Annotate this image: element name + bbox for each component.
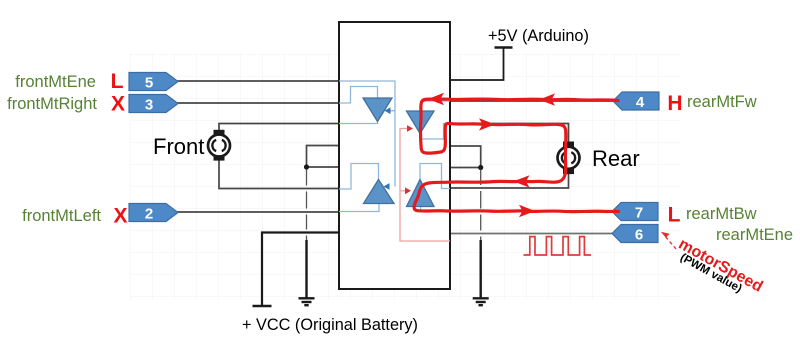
triangle A4 rear driver bottom (407, 180, 435, 207)
enable arrow into A4 (405, 187, 411, 194)
pin 5 (129, 73, 178, 91)
wire +5V to IC (450, 48, 504, 81)
wire output A2 to front motor bottom (blue) (339, 164, 379, 190)
svg-text:frontMtRight: frontMtRight (7, 95, 97, 113)
wire rear ground dropper (480, 170, 482, 241)
wire input pin7 (blue) (421, 207, 451, 212)
wire input pin3 (blue) (339, 87, 378, 104)
motor M1 Front (208, 130, 230, 161)
svg-text:+5V (Arduino): +5V (Arduino) (488, 27, 589, 45)
motorSpeed pointer arrow (dashed) (665, 236, 677, 250)
pin 6 (612, 225, 658, 243)
svg-text:4: 4 (636, 94, 645, 111)
wire front ground dropper (306, 170, 308, 241)
red current path annotation pin4 to pin7 (414, 99, 618, 212)
wire front motor bottom (219, 161, 339, 189)
wire enable left (blue) (339, 81, 395, 187)
wire input pin4 (blue) (421, 101, 450, 111)
wire pin7 net to IC (450, 211, 614, 213)
pin 3 (129, 95, 178, 113)
op-amp U1 driver IC body (339, 22, 450, 289)
svg-text:5: 5 (145, 75, 153, 92)
triangle A3 rear driver top (407, 111, 435, 134)
svg-text:L: L (668, 204, 681, 227)
pin 4 (613, 92, 659, 110)
wire pin6 net to IC (gray) (450, 233, 613, 235)
wire front motor top (219, 124, 339, 131)
enable arrow into A2 (384, 183, 390, 190)
wire pin4 net to IC (450, 100, 614, 102)
enable arrow into A3 (407, 125, 413, 132)
node front ground junction (304, 164, 309, 169)
svg-text:6: 6 (635, 227, 643, 244)
svg-text:Front: Front (153, 134, 204, 159)
svg-text:3: 3 (145, 97, 153, 114)
red flow arrowhead right motor top (479, 118, 495, 130)
ground front (299, 298, 315, 305)
triangle A1 front driver top (363, 98, 392, 122)
svg-text:frontMtEne: frontMtEne (15, 73, 96, 91)
ground rear (473, 298, 489, 305)
svg-text:rearMtEne: rearMtEne (716, 226, 793, 244)
pin 2 (129, 204, 178, 222)
wire front ground Z upper (307, 146, 340, 168)
wire enable right from pin6 (salmon) (400, 129, 450, 242)
wire output A1 to front motor top (blue) (339, 122, 378, 124)
wire rear motor top (450, 124, 569, 142)
node rear ground junction (478, 165, 483, 170)
red flow arrowhead left 1 (539, 93, 555, 105)
triangle A2 front driver bottom (364, 180, 395, 204)
svg-text:frontMtLeft: frontMtLeft (22, 207, 101, 225)
wire VCC to IC (262, 233, 339, 306)
pin 7 (612, 203, 658, 221)
svg-text:7: 7 (635, 205, 643, 222)
svg-text:Rear: Rear (592, 146, 640, 171)
svg-text:rearMtBw: rearMtBw (686, 205, 757, 223)
motor M2 Rear (558, 142, 580, 175)
wire pin2 net to IC (177, 211, 339, 213)
red flow arrowhead left 2 (428, 93, 444, 105)
wire input pin2 (blue) (339, 204, 379, 212)
wire output A4 to rear motor bottom (blue) (420, 164, 450, 189)
red flow arrowhead left motor bottom (514, 175, 530, 187)
wire rear ground Z upper (450, 146, 481, 168)
grid background (130, 53, 680, 300)
svg-text:2: 2 (145, 206, 153, 223)
enable arrow into A1 (385, 107, 391, 114)
wire pin5 net to IC (177, 80, 339, 82)
wire pin3 net to IC (177, 102, 339, 104)
svg-text:rearMtFw: rearMtFw (687, 93, 757, 111)
svg-text:H: H (667, 92, 682, 115)
power + VCC terminal (253, 305, 272, 308)
svg-text:L: L (111, 70, 124, 93)
power +5V terminal (495, 46, 513, 49)
svg-text:+ VCC (Original Battery): + VCC (Original Battery) (242, 316, 418, 334)
svg-text:X: X (111, 93, 125, 116)
wire output A3 to rear motor top (blue) (420, 124, 450, 140)
wire rear motor bottom (450, 174, 569, 188)
PWM waveform (524, 237, 592, 255)
svg-text:X: X (113, 205, 127, 228)
red flow arrowhead right pin7 (519, 205, 535, 217)
